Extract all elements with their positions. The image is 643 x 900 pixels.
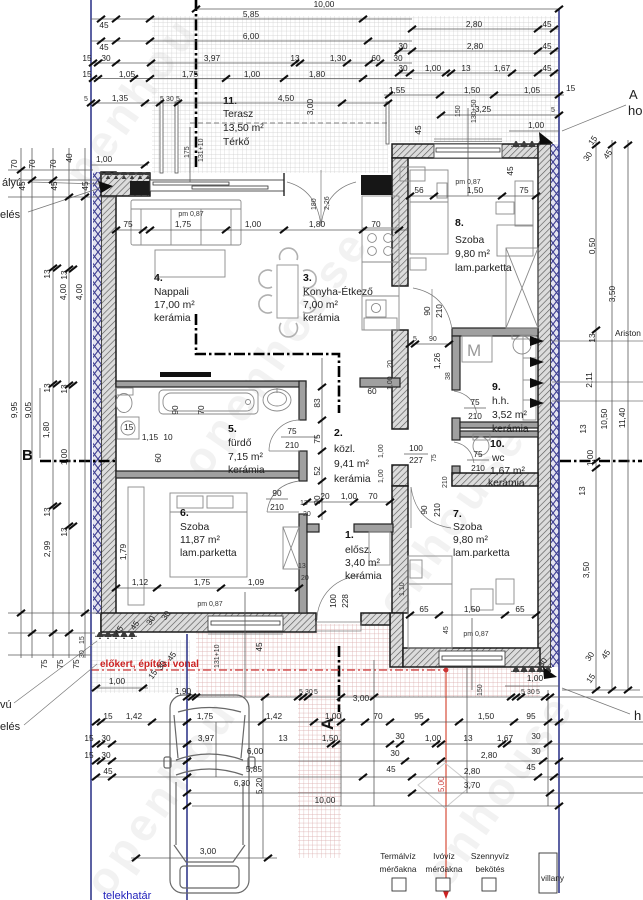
room7 small table [471,589,493,610]
svg-text:30: 30 [166,96,174,103]
svg-text:A: A [629,87,638,102]
insulation strip left (blue) [93,172,101,614]
svg-text:30: 30 [527,689,535,696]
svg-text:70: 70 [196,405,206,415]
svg-text:3,50: 3,50 [607,286,617,303]
room8 south wall [452,328,538,336]
red diamond utility mark [418,763,472,808]
svg-text:1,00: 1,00 [425,63,442,73]
svg-text:15: 15 [124,422,134,432]
zigzag band bottom-left [95,632,137,639]
black arrow top-left corner [98,181,113,193]
svg-text:Szoba: Szoba [180,522,209,533]
svg-text:70: 70 [9,159,19,169]
svg-text:lam.parketta: lam.parketta [455,263,512,274]
svg-text:45: 45 [99,42,109,52]
black arrow top-right corner [539,132,553,144]
svg-text:1,75: 1,75 [175,219,192,229]
svg-text:1,00: 1,00 [325,711,342,721]
svg-text:95: 95 [526,711,536,721]
svg-text:fürdő: fürdő [228,438,252,449]
svg-text:15: 15 [566,83,576,93]
blue property line west [90,0,92,900]
svg-text:130+50: 130+50 [471,99,478,123]
top chain ticks [87,6,563,168]
svg-text:70: 70 [27,159,37,169]
svg-text:95: 95 [414,711,424,721]
bathtub [159,390,258,414]
elosz cabinet [369,532,390,565]
front grid right block [392,668,540,697]
top dimension chain lines [91,9,564,196]
window room6 south [208,616,283,634]
svg-text:20: 20 [301,575,309,582]
svg-text:210: 210 [270,502,284,512]
svg-text:1,75: 1,75 [197,711,214,721]
svg-text:6.: 6. [180,507,189,519]
svg-text:30: 30 [79,650,86,658]
svg-text:h: h [634,708,641,723]
svg-text:150: 150 [477,684,484,696]
walkway strip to street (pink) [298,697,341,858]
svg-text:kerámia: kerámia [492,424,529,435]
svg-text:100: 100 [409,443,423,453]
room6 wardrobe [128,487,144,605]
svg-text:70: 70 [371,219,381,229]
entrance door + arc [316,576,361,631]
svg-text:75: 75 [55,659,65,669]
svg-text:70: 70 [368,491,378,501]
chairs [259,248,316,337]
svg-text:210: 210 [442,476,449,488]
svg-text:75: 75 [123,219,133,229]
svg-text:20: 20 [387,360,394,368]
konyha south stub [360,378,400,387]
svg-text:1,00: 1,00 [59,449,69,466]
svg-text:6,00: 6,00 [247,746,264,756]
svg-text:Szoba: Szoba [455,235,484,246]
svg-text:5: 5 [314,689,318,696]
terasz east edge [386,102,389,144]
svg-text:2,80: 2,80 [464,766,481,776]
svg-text:11,87 m²: 11,87 m² [180,535,220,546]
svg-text:65: 65 [515,604,525,614]
svg-text:1,00: 1,00 [96,154,113,164]
svg-text:30: 30 [390,748,400,758]
svg-text:Térkő: Térkő [223,137,250,148]
svg-text:7,15 m²: 7,15 m² [228,452,263,463]
window room8 north [434,139,502,158]
svg-text:210: 210 [434,304,444,318]
svg-text:75: 75 [519,185,529,195]
svg-text:40: 40 [64,153,74,163]
top chain labels [82,0,575,164]
svg-text:10.: 10. [490,438,505,450]
svg-text:9,80 m²: 9,80 m² [455,249,490,260]
svg-text:3,70: 3,70 [464,780,481,790]
svg-text:2,99: 2,99 [42,541,52,558]
svg-text:4,00: 4,00 [58,284,68,301]
door room7 [411,487,451,528]
svg-text:telekhatár: telekhatár [103,890,152,900]
svg-text:45: 45 [413,125,423,135]
svg-text:1,05: 1,05 [119,69,136,79]
svg-text:45: 45 [99,20,109,30]
radiator arrows [530,336,544,408]
svg-text:h.h.: h.h. [492,396,509,407]
svg-text:60: 60 [153,453,163,463]
furdo/room6 divider [116,471,299,478]
svg-text:90: 90 [429,336,437,343]
svg-text:1,30: 1,30 [330,53,347,63]
svg-text:13: 13 [587,333,597,343]
boiler [512,335,532,354]
svg-text:Termálvíz: Termálvíz [380,851,416,861]
interior dimension rows [116,196,538,615]
svg-text:100: 100 [328,594,338,608]
svg-text:5,20: 5,20 [254,778,264,795]
niche hh [523,336,536,420]
svg-text:70: 70 [48,159,58,169]
svg-text:Nappali: Nappali [154,287,189,298]
svg-text:75: 75 [312,434,322,444]
svg-text:90: 90 [422,306,432,316]
svg-text:30: 30 [395,731,405,741]
zigzag band top-left [100,172,150,179]
svg-text:vú: vú [0,699,12,711]
svg-text:1,67 m²: 1,67 m² [490,466,525,477]
svg-text:Szennyvíz: Szennyvíz [471,851,509,861]
svg-text:45: 45 [542,19,552,29]
svg-text:15: 15 [82,53,92,63]
svg-text:15: 15 [84,750,94,760]
svg-text:70: 70 [373,711,383,721]
terasz posts [160,102,163,173]
room8 desk [515,181,533,226]
svg-text:1,50: 1,50 [464,85,481,95]
svg-text:65: 65 [419,604,429,614]
svg-text:3,97: 3,97 [204,53,221,63]
svg-text:45: 45 [17,181,27,191]
black pier terasz east [361,175,399,195]
svg-text:228: 228 [340,594,350,608]
hh/wc divider wall [460,422,538,428]
section line A porch [338,646,341,712]
svg-text:kerámia: kerámia [345,571,382,582]
svg-text:180: 180 [311,198,318,210]
svg-text:0,50: 0,50 [587,238,597,255]
central wall pieces [392,158,408,286]
svg-text:227: 227 [409,455,423,465]
svg-text:3,40 m²: 3,40 m² [345,558,380,569]
svg-text:9,95: 9,95 [9,402,19,419]
svg-text:3,50: 3,50 [581,562,591,579]
svg-text:13: 13 [278,733,288,743]
svg-text:1,00: 1,00 [378,469,385,483]
svg-text:5: 5 [536,689,540,696]
svg-text:1,00: 1,00 [387,376,394,390]
svg-text:1,42: 1,42 [266,711,283,721]
svg-text:45: 45 [103,766,113,776]
svg-text:56: 56 [414,185,424,195]
svg-text:13: 13 [298,563,306,570]
svg-text:13: 13 [461,63,471,73]
svg-text:9.: 9. [492,381,501,393]
svg-text:2.: 2. [334,427,343,439]
svg-text:Szoba: Szoba [453,522,482,533]
svg-text:4.: 4. [154,272,163,284]
svg-text:elés: elés [0,209,21,221]
svg-text:1,67: 1,67 [494,63,511,73]
french door terasz-konyha [284,170,356,226]
svg-text:1,75: 1,75 [182,69,199,79]
svg-text:pm 0,87: pm 0,87 [463,631,488,638]
svg-text:1,00: 1,00 [109,676,126,686]
svg-text:1,35: 1,35 [112,93,129,103]
svg-text:Ivóvíz: Ivóvíz [433,851,455,861]
svg-text:10,50: 10,50 [599,408,609,429]
svg-text:1,00: 1,00 [378,444,385,458]
black sill pier [130,181,150,195]
svg-text:75: 75 [71,659,81,669]
toilet furdo [116,388,133,413]
svg-text:7,00 m²: 7,00 m² [303,300,338,311]
svg-text:1,79: 1,79 [118,544,128,561]
svg-text:2,80: 2,80 [467,41,484,51]
svg-text:3,00: 3,00 [200,846,217,856]
door room6 [267,481,299,512]
svg-text:6,30: 6,30 [234,778,251,788]
room labels [154,95,529,582]
svg-text:210: 210 [471,463,485,473]
svg-text:2,26: 2,26 [324,196,331,210]
svg-text:8.: 8. [455,217,464,229]
kitchen counter [362,196,399,330]
room6 east wall [299,514,307,613]
svg-text:17,00 m²: 17,00 m² [154,300,195,311]
svg-text:1,50: 1,50 [322,733,339,743]
svg-text:5.: 5. [228,423,237,435]
svg-text:45: 45 [526,762,536,772]
svg-text:mérőakna: mérőakna [380,864,417,874]
pier south-center [390,613,403,667]
svg-text:5: 5 [551,107,555,114]
south wall left block [101,613,316,632]
terasz tile grid [152,102,388,173]
svg-text:pm 0,87: pm 0,87 [197,601,222,608]
north wall right block [392,144,552,158]
svg-text:9,80 m²: 9,80 m² [453,535,488,546]
section line B right [560,460,642,463]
svg-text:bekötés: bekötés [475,864,504,874]
svg-text:1,50: 1,50 [478,711,495,721]
svg-text:15: 15 [82,69,92,79]
insulation strip right (blue) [551,144,559,667]
svg-text:30: 30 [101,53,111,63]
svg-text:131+10: 131+10 [198,138,205,162]
svg-text:1,10: 1,10 [399,582,406,596]
svg-text:4,50: 4,50 [278,93,295,103]
svg-text:3,00: 3,00 [305,99,315,116]
furdo east wall [299,381,306,420]
kozl/elosz wall stubs [307,524,319,532]
svg-text:1,80: 1,80 [309,219,326,229]
svg-text:13: 13 [577,486,587,496]
svg-text:5,85: 5,85 [246,764,263,774]
svg-text:1,50: 1,50 [467,185,484,195]
south wall right block [403,648,540,667]
svg-text:45: 45 [443,626,450,634]
svg-text:B: B [22,447,33,464]
svg-text:45: 45 [542,63,552,73]
svg-text:175: 175 [184,146,191,158]
red utility line vertical [445,668,447,893]
svg-text:83: 83 [312,398,322,408]
blue property line southwest [186,634,188,900]
left vertical chains [8,148,116,658]
svg-text:1,00: 1,00 [341,491,358,501]
dining table [277,265,298,318]
svg-text:pm 0,87: pm 0,87 [455,179,480,186]
coffee table [155,250,225,277]
svg-text:30: 30 [531,746,541,756]
svg-text:75: 75 [473,449,483,459]
svg-text:90: 90 [419,505,429,515]
svg-text:mérőakna: mérőakna [426,864,463,874]
east exterior wall [538,144,551,667]
zigzag band bottom-right [511,666,551,673]
svg-text:10,00: 10,00 [314,0,335,9]
washer furdo [117,417,139,439]
window room7 south [439,651,505,666]
svg-text:60: 60 [367,386,377,396]
svg-text:7.: 7. [453,508,462,520]
washer M hh [462,336,492,362]
svg-text:5,00: 5,00 [437,776,446,792]
svg-text:150: 150 [455,105,462,117]
svg-text:2,11: 2,11 [584,372,594,388]
svg-text:pm 0,87: pm 0,87 [178,211,203,218]
svg-text:210: 210 [285,440,299,450]
svg-text:Konyha-Étkező: Konyha-Étkező [303,285,373,298]
svg-text:45: 45 [80,181,90,191]
svg-text:210: 210 [468,411,482,421]
svg-text:5,85: 5,85 [243,9,260,19]
svg-text:45: 45 [254,642,264,652]
red building line [91,669,446,671]
right vertical chains [562,140,640,690]
svg-text:1,09: 1,09 [248,577,265,587]
svg-text:lam.parketta: lam.parketta [453,548,510,559]
wc toilet [473,434,490,455]
svg-text:3,00: 3,00 [353,693,370,703]
car on street [164,695,255,893]
svg-text:75: 75 [287,426,297,436]
svg-text:kerámia: kerámia [303,313,340,324]
black arrow bottom-right corner [543,667,557,679]
svg-text:75: 75 [431,454,438,462]
svg-text:elés: elés [0,721,21,733]
washbasin furdo [263,387,291,411]
svg-text:45: 45 [505,166,515,176]
svg-text:1.: 1. [345,529,354,541]
svg-text:10,00: 10,00 [315,795,336,805]
svg-text:11.: 11. [223,95,237,107]
svg-text:elősz.: elősz. [345,545,372,556]
svg-text:13: 13 [463,733,473,743]
section line A top [195,0,198,170]
svg-text:1,15: 1,15 [142,432,159,442]
door room8 [413,288,452,336]
svg-text:15: 15 [79,636,86,644]
room6 bed [170,493,247,577]
svg-text:1,26: 1,26 [432,353,442,370]
svg-text:1,80: 1,80 [41,422,51,439]
svg-text:Terasz: Terasz [223,109,253,120]
svg-text:1,05: 1,05 [524,85,541,95]
svg-text:2,80: 2,80 [466,19,483,29]
svg-text:1,80: 1,80 [309,69,326,79]
svg-text:13: 13 [578,424,588,434]
svg-text:1,50: 1,50 [464,604,481,614]
svg-text:30: 30 [393,53,403,63]
svg-text:5: 5 [84,96,88,103]
south wall elosz right [361,613,390,625]
wall top-left (nappali north) [101,173,150,196]
svg-text:1,75: 1,75 [194,577,211,587]
yard grid right of terasz [390,102,558,142]
svg-text:3.: 3. [303,272,312,284]
svg-text:lam.parketta: lam.parketta [180,548,237,559]
room8 window cabinet [400,167,425,181]
svg-text:60: 60 [371,53,381,63]
svg-text:20: 20 [303,511,311,518]
svg-text:9,05: 9,05 [23,402,33,419]
wc south / room7 north wall [452,473,538,486]
room6 corner wardrobe X [283,527,299,569]
svg-text:1,00: 1,00 [244,69,261,79]
door wc [454,442,474,463]
front garden grid left [91,640,190,693]
porch tile grid center (pink) [196,624,392,697]
svg-text:ho: ho [628,103,642,118]
door hh [454,391,477,414]
svg-text:9,41 m²: 9,41 m² [334,459,369,470]
svg-text:6,00: 6,00 [243,31,260,41]
svg-text:38: 38 [445,372,452,380]
svg-text:M: M [467,341,481,360]
svg-text:1,42: 1,42 [126,711,143,721]
room8 nightstand [496,202,514,214]
hh/wc west wall pieces [452,336,460,390]
svg-text:kerámia: kerámia [488,478,525,489]
furdo north wall [116,381,306,387]
svg-text:kerámia: kerámia [228,465,265,476]
TV cabinet black bar [160,372,211,377]
room7 wardrobe [496,579,514,604]
svg-text:90: 90 [170,405,180,415]
svg-text:3,52 m²: 3,52 m² [492,410,527,421]
door furdo [269,420,300,451]
room8 bed [410,170,448,270]
section line A middle jog [196,314,339,413]
svg-text:90: 90 [272,488,282,498]
svg-text:közl.: közl. [334,444,355,455]
room7 bed [408,556,452,648]
svg-text:210: 210 [432,503,442,517]
svg-text:1,12: 1,12 [132,577,149,587]
yard paving grid top [152,16,558,102]
